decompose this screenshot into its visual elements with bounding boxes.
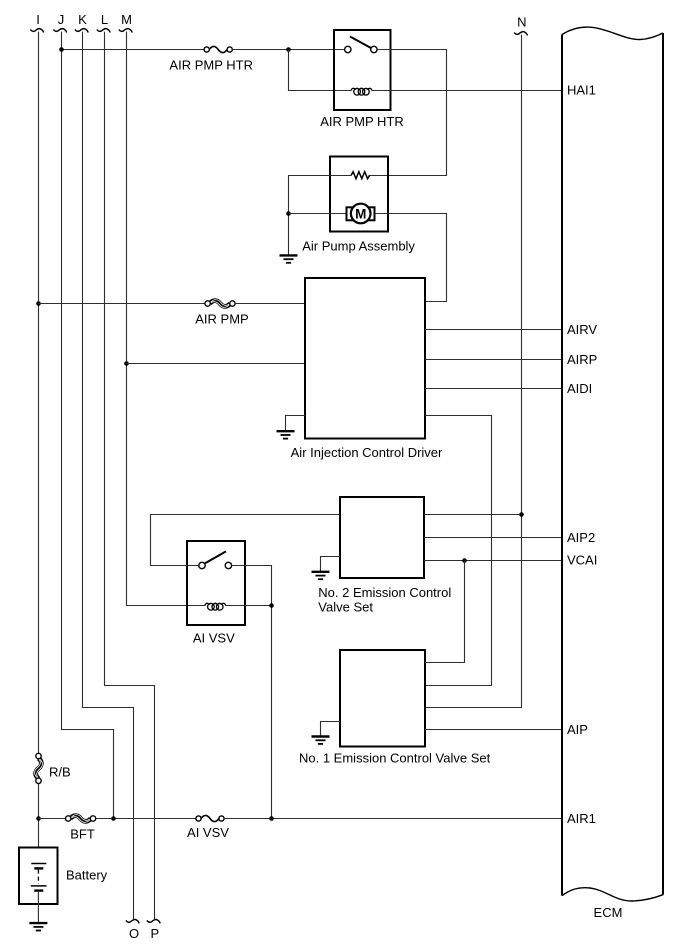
fuse AI VSV xyxy=(196,815,224,821)
wire M to driver xyxy=(127,363,306,365)
junction VCAI / no1 xyxy=(462,558,467,563)
relay AIR PMP HTR switch xyxy=(345,37,378,53)
fuse AIR PMP HTR xyxy=(204,46,232,52)
wire battery to ground xyxy=(37,892,39,923)
svg-text:O: O xyxy=(129,926,139,941)
svg-text:Valve Set: Valve Set xyxy=(318,600,373,615)
relay AI VSV coil xyxy=(205,603,226,610)
svg-text:I: I xyxy=(36,12,40,27)
connector break N xyxy=(514,32,527,36)
svg-text:M: M xyxy=(355,206,366,221)
svg-text:Air Pump Assembly: Air Pump Assembly xyxy=(302,238,415,253)
svg-text:No. 1 Emission Control Valve S: No. 1 Emission Control Valve Set xyxy=(299,751,491,766)
connector break J xyxy=(53,29,66,33)
wire resistor to ground stem xyxy=(289,176,352,255)
no2 emission control valve set box xyxy=(340,497,424,578)
ground (no1 valve set) xyxy=(312,737,330,744)
ECM right edge xyxy=(662,33,664,895)
svg-text:AIR PMP: AIR PMP xyxy=(195,312,248,327)
svg-text:P: P xyxy=(150,926,159,941)
wire driver AIRV to ECM xyxy=(425,329,562,331)
wire no2 VCAI to ECM xyxy=(424,560,562,562)
svg-text:AIR PMP HTR: AIR PMP HTR xyxy=(169,58,253,73)
svg-text:No. 2 Emission Control: No. 2 Emission Control xyxy=(318,585,451,600)
ground (air pump assembly) xyxy=(280,255,298,262)
junction AI VSV / AIR1 xyxy=(269,816,274,821)
wire driver ground xyxy=(286,416,306,431)
relay AIR PMP HTR coil xyxy=(351,88,372,95)
ground (battery) xyxy=(29,923,47,930)
junction relay coil feed xyxy=(286,47,291,52)
connector break O xyxy=(126,919,139,923)
ECM bottom edge xyxy=(562,888,663,901)
wire motor right lead to driver xyxy=(375,214,447,302)
pin AIRP xyxy=(567,352,597,367)
label Air Injection Control Driver xyxy=(291,445,443,460)
motor M (air pump) xyxy=(347,204,375,224)
junction I / AIR PMP feed xyxy=(36,301,41,306)
wire I column xyxy=(38,32,40,754)
node O xyxy=(129,926,139,941)
label AIR PMP xyxy=(195,312,248,327)
node M xyxy=(121,12,132,27)
label ECM xyxy=(594,905,623,920)
junction AI VSV out xyxy=(269,603,274,608)
wire battery feed to BFT xyxy=(39,818,66,820)
wire relay coil feed xyxy=(289,50,352,91)
wire relay switch out xyxy=(369,50,447,176)
junction J / AIR1 xyxy=(111,816,116,821)
wire no1 ground xyxy=(321,722,341,736)
ground (driver) xyxy=(277,431,295,438)
svg-text:BFT: BFT xyxy=(70,827,95,842)
wire N column xyxy=(425,35,522,708)
svg-text:L: L xyxy=(101,12,108,27)
pin AIDI xyxy=(567,381,592,396)
fusible link AIR PMP xyxy=(205,300,235,308)
svg-text:Battery: Battery xyxy=(66,868,108,883)
wire relay coil to ECM HAI1 xyxy=(372,90,562,92)
wire I to fusible link AIR PMP xyxy=(39,303,206,305)
air pump assembly box xyxy=(330,157,388,232)
relay AI VSV switch xyxy=(199,551,232,568)
ECM top edge xyxy=(562,27,663,39)
pin AIP2 xyxy=(567,530,595,545)
svg-text:Air Injection Control Driver: Air Injection Control Driver xyxy=(291,445,443,460)
wire no1 AIP to ECM xyxy=(425,729,562,731)
pin VCAI xyxy=(567,553,597,568)
junction J / AIR PMP HTR feed xyxy=(59,47,64,52)
svg-text:AIRP: AIRP xyxy=(567,352,597,367)
wire AI VSV switch to no2 valve set xyxy=(151,515,341,566)
label BFT xyxy=(70,827,95,842)
wire J to fuse AIR PMP HTR xyxy=(62,49,205,51)
pin AIP xyxy=(567,722,588,737)
connector break I xyxy=(30,29,43,33)
svg-text:AIRV: AIRV xyxy=(567,322,597,337)
wire driver to no1 valve set xyxy=(425,416,492,686)
svg-text:K: K xyxy=(78,12,87,27)
svg-text:VCAI: VCAI xyxy=(567,553,597,568)
node P xyxy=(150,926,159,941)
node I xyxy=(36,12,40,27)
wire M column xyxy=(127,32,206,606)
label R/B xyxy=(49,764,71,779)
label Air Pump Assembly xyxy=(302,238,415,253)
svg-text:AIR1: AIR1 xyxy=(567,811,596,826)
svg-text:ECM: ECM xyxy=(594,905,623,920)
wire no2 to N junction xyxy=(424,514,522,516)
label AI VSV (fuse) xyxy=(187,825,229,840)
wire AI VSV switch out xyxy=(232,566,272,819)
label No. 1 Emission Control Valve Set xyxy=(299,751,491,766)
svg-text:AI VSV: AI VSV xyxy=(193,631,235,646)
battery cells xyxy=(31,864,47,891)
wire AI VSV coil out xyxy=(226,605,272,607)
battery box xyxy=(19,848,58,905)
junction M / driver feed xyxy=(124,361,129,366)
wire L column xyxy=(105,32,155,921)
svg-text:J: J xyxy=(58,12,65,27)
svg-text:AIP2: AIP2 xyxy=(567,530,595,545)
wire fuse to relay switch xyxy=(233,49,345,51)
pin AIR1 xyxy=(567,811,596,826)
connector break P xyxy=(147,919,160,923)
resistor (air pump) xyxy=(351,172,369,179)
fusible link R/B xyxy=(35,753,43,783)
wire J column xyxy=(62,32,114,819)
wire K column xyxy=(83,32,134,921)
junction battery / AIR1 xyxy=(36,816,41,821)
svg-text:AIP: AIP xyxy=(567,722,588,737)
connector break M xyxy=(119,29,132,33)
svg-text:HAI1: HAI1 xyxy=(567,83,596,98)
label AIR PMP HTR (fuse) xyxy=(169,58,253,73)
svg-text:AIR PMP HTR: AIR PMP HTR xyxy=(320,114,404,129)
pin AIRV xyxy=(567,322,597,337)
junction N / no2 xyxy=(519,512,524,517)
ECM left edge xyxy=(561,35,563,896)
wire driver AIRP to ECM xyxy=(425,359,562,361)
label AI VSV (relay) xyxy=(193,631,235,646)
node K xyxy=(78,12,87,27)
wire no1 to VCAI junction xyxy=(425,561,465,663)
node J xyxy=(58,12,65,27)
node N xyxy=(517,15,526,30)
label Battery xyxy=(66,868,108,883)
wire BFT to fuse AI VSV xyxy=(96,818,196,820)
air injection control driver box U1 xyxy=(305,278,425,439)
no1 emission control valve set box xyxy=(340,650,425,747)
svg-text:AIDI: AIDI xyxy=(567,381,592,396)
wire motor left lead xyxy=(289,213,348,215)
wire fusible link to driver xyxy=(235,303,305,305)
wire AIR1 to ECM xyxy=(224,818,562,820)
wire no2 AIP2 to ECM xyxy=(424,537,562,539)
relay AI VSV box xyxy=(187,541,245,625)
svg-text:AI VSV: AI VSV xyxy=(187,825,229,840)
svg-text:M: M xyxy=(121,12,132,27)
junction motor ground xyxy=(286,211,291,216)
node L xyxy=(101,12,108,27)
ground (no2 valve set) xyxy=(312,572,330,579)
relay AIR PMP HTR box xyxy=(334,30,391,110)
label No. 2 Emission Control Valve Set xyxy=(318,585,451,615)
connector break K xyxy=(75,29,88,33)
fusible link BFT xyxy=(66,815,96,823)
connector break L xyxy=(97,29,110,33)
wire I below R/B to battery xyxy=(38,783,40,847)
wire driver AIDI to ECM xyxy=(425,388,562,390)
svg-text:R/B: R/B xyxy=(49,764,71,779)
wire no2 ground xyxy=(321,557,341,572)
svg-text:N: N xyxy=(517,15,526,30)
pin HAI1 xyxy=(567,83,596,98)
label AIR PMP HTR (relay) xyxy=(320,114,404,129)
